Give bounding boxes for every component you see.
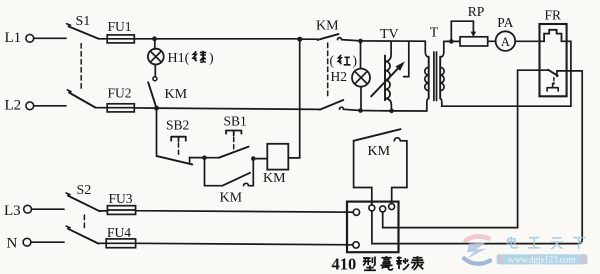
svg-text:(: ( <box>330 53 335 68</box>
svg-text:RP: RP <box>468 4 485 19</box>
svg-text:): ) <box>353 53 358 68</box>
svg-text:FU4: FU4 <box>107 225 131 240</box>
svg-text:A: A <box>501 35 510 49</box>
svg-text:L3: L3 <box>4 203 21 219</box>
svg-text:KM: KM <box>165 87 188 102</box>
svg-text:KM: KM <box>368 144 391 159</box>
svg-text:KM: KM <box>316 19 339 34</box>
svg-text:TV: TV <box>380 27 399 42</box>
svg-text:FR: FR <box>545 8 562 23</box>
svg-text:T: T <box>430 26 439 41</box>
svg-text:SB1: SB1 <box>224 114 247 129</box>
svg-text:SB2: SB2 <box>166 118 189 133</box>
svg-text:FU2: FU2 <box>108 86 132 101</box>
svg-text:N: N <box>7 236 18 252</box>
svg-text:PA: PA <box>497 15 513 30</box>
svg-text:KM: KM <box>220 191 243 206</box>
svg-text:): ) <box>209 51 214 66</box>
svg-text:FU3: FU3 <box>109 191 133 206</box>
svg-text:S1: S1 <box>76 14 91 29</box>
svg-text:410: 410 <box>332 255 357 274</box>
svg-text:S2: S2 <box>77 183 92 198</box>
svg-text:FU1: FU1 <box>108 19 132 34</box>
svg-text:H1(: H1( <box>168 51 190 66</box>
svg-text:L2: L2 <box>5 98 22 114</box>
svg-text:L1: L1 <box>5 30 22 46</box>
svg-text:H2: H2 <box>331 69 348 84</box>
svg-text:KM: KM <box>263 171 286 186</box>
svg-text:www.dgjs123.com: www.dgjs123.com <box>508 254 575 264</box>
